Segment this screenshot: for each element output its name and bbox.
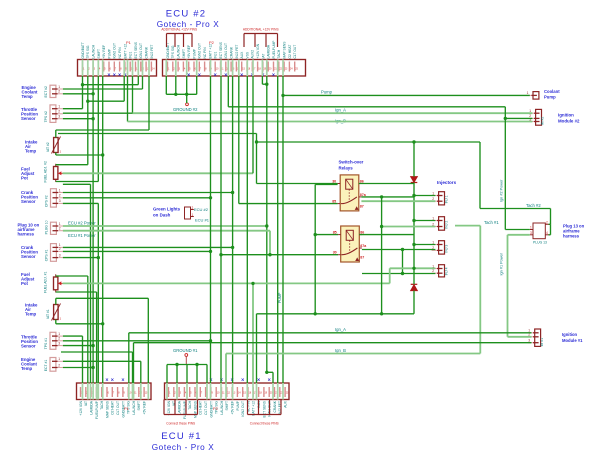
svg-text:2: 2 xyxy=(432,269,434,273)
junction inj3 pin1 xyxy=(412,243,415,246)
wire inj2 pin2 (pale) xyxy=(382,226,436,228)
svg-text:ECU #2: ECU #2 xyxy=(166,9,206,20)
connector X2 Throttle Position Sensor #2 xyxy=(44,105,63,123)
svg-text:Pump: Pump xyxy=(321,90,333,95)
svg-text:×: × xyxy=(111,377,114,383)
wire IAT#2 second lead to relay riser xyxy=(58,134,257,184)
svg-text:SHIFT: SHIFT xyxy=(225,401,229,411)
wire Ign_A bottom xyxy=(129,333,532,383)
wire Ign_A net (pale) xyxy=(133,112,533,114)
wire relay K2 87a to inj3 pin2 xyxy=(362,249,436,251)
junction ECU #2 power jog xyxy=(265,371,268,374)
wire mid vertical x=232.6 xyxy=(232,76,234,383)
junction relay K2 pin85 feed xyxy=(314,233,317,236)
connector X6 Engine Coolant Temp #1 xyxy=(44,357,63,371)
wire inj4 pin2 xyxy=(362,273,435,275)
svg-text:harness: harness xyxy=(18,232,35,237)
svg-text:×: × xyxy=(240,73,243,79)
svg-text:SHIFT: SHIFT xyxy=(182,49,186,59)
wire IAT#2 top to P1 xyxy=(56,76,149,138)
jumper bracket: connect these pins (bottom right) xyxy=(248,400,282,426)
wire relay K2 coil right to diode line xyxy=(359,234,414,236)
diode D2 xyxy=(411,283,418,293)
svg-text:CLT OUT: CLT OUT xyxy=(293,45,297,59)
wire pot#1 wiper feed corner (pale) xyxy=(389,268,391,283)
svg-text:INJ 4: INJ 4 xyxy=(445,267,449,275)
svg-text:2: 2 xyxy=(59,227,61,231)
wire IAT#1 bottom xyxy=(56,320,103,324)
svg-text:PUMP: PUMP xyxy=(278,292,282,303)
junction GROUND#1 b xyxy=(195,363,198,366)
svg-text:IGN2 OUT: IGN2 OUT xyxy=(198,43,202,59)
svg-text:ECU #1 Power: ECU #1 Power xyxy=(68,233,96,238)
svg-text:Ignition: Ignition xyxy=(562,332,578,337)
wire Ign_B bottom xyxy=(134,343,532,383)
junction P1 pin link a xyxy=(81,83,84,86)
wire tach riser horizontal xyxy=(257,142,481,209)
connector Plug 13 on airframe harness xyxy=(530,220,549,244)
junction injector common top xyxy=(412,140,415,143)
svg-text:4: 4 xyxy=(546,231,548,235)
svg-text:AUX: AUX xyxy=(240,51,244,59)
svg-text:3: 3 xyxy=(58,115,60,119)
label Green Lights on Dash xyxy=(153,207,181,218)
net label GROUND #2 xyxy=(173,103,198,112)
svg-text:Ignition: Ignition xyxy=(558,113,574,118)
junction GROUND#2 b xyxy=(185,93,188,96)
label Fuel Adjust Pot (bottom) xyxy=(21,272,35,286)
svg-text:2: 2 xyxy=(58,110,60,114)
junction inj2 pin1 xyxy=(412,219,415,222)
wire P1 stub x=98.3 xyxy=(97,76,99,182)
svg-text:GROUND #1: GROUND #1 xyxy=(173,348,198,353)
label Coolant Pump xyxy=(544,89,560,99)
wire TPS#1 pin2 xyxy=(63,340,211,342)
svg-text:Ign #2 Power: Ign #2 Power xyxy=(500,179,504,202)
wire relay K1 pin30 feed from riser xyxy=(315,184,337,186)
svg-text:PUMP: PUMP xyxy=(236,400,240,410)
svg-text:Gotech - Pro X: Gotech - Pro X xyxy=(152,443,215,452)
svg-text:LAUNCH: LAUNCH xyxy=(177,44,181,58)
svg-text:Temp: Temp xyxy=(22,94,34,99)
wire CPS#1 pin3 xyxy=(63,257,98,259)
svg-text:CRANK: CRANK xyxy=(230,46,234,58)
svg-text:CPS #2: CPS #2 xyxy=(44,195,48,207)
svg-text:CPS #1: CPS #1 xyxy=(44,250,48,262)
svg-text:IAT: IAT xyxy=(84,401,88,406)
svg-text:P1: P1 xyxy=(126,40,132,45)
relay K1 (switch-over relay 1) xyxy=(332,175,367,211)
svg-text:CRANK: CRANK xyxy=(273,400,277,412)
svg-text:TPS #2: TPS #2 xyxy=(44,111,48,122)
pale pass bars P1 top xyxy=(83,60,150,77)
junction bottom return b xyxy=(380,312,383,315)
junction x=381.6 top xyxy=(380,195,383,198)
svg-text:Relays: Relays xyxy=(339,166,354,171)
wire relay K1 pin30 feed xyxy=(257,183,338,185)
svg-text:LAUNCH: LAUNCH xyxy=(220,400,224,414)
svg-text:1: 1 xyxy=(432,240,434,244)
wire ECT#1 extra to P1 (bottom) xyxy=(61,352,133,383)
svg-text:BATT +12: BATT +12 xyxy=(208,44,212,59)
svg-text:ECT #1: ECT #1 xyxy=(44,360,48,372)
junction POT#1 wiper xyxy=(251,282,254,285)
svg-text:+12V IGN: +12V IGN xyxy=(256,43,260,58)
wire Ign #2 Power riser link xyxy=(228,76,505,107)
svg-text:PLUG 13: PLUG 13 xyxy=(533,241,547,245)
junction CPS#1 pin3 xyxy=(97,256,100,259)
svg-text:1: 1 xyxy=(58,85,60,89)
svg-text:×: × xyxy=(105,377,108,383)
connector X3 Crank Position Sensor #2 xyxy=(44,188,63,207)
svg-text:Ign #1 Power: Ign #1 Power xyxy=(500,252,504,275)
svg-text:INJ1: INJ1 xyxy=(214,52,218,59)
svg-text:ECT SENS: ECT SENS xyxy=(134,41,138,58)
svg-text:2: 2 xyxy=(59,194,61,198)
svg-text:TACH: TACH xyxy=(188,400,192,409)
wire POT#2 top corner xyxy=(56,164,88,166)
svg-text:on Dash: on Dash xyxy=(153,213,171,218)
wire relay feed vertical x=315.2 xyxy=(314,185,316,314)
junction relay feed riser bottom xyxy=(314,312,317,315)
wire ECU #1 Power xyxy=(63,231,270,255)
svg-text:Sensor: Sensor xyxy=(21,254,36,259)
svg-text:SHIFT: SHIFT xyxy=(137,401,141,411)
connector injector INJ1 xyxy=(432,191,445,205)
svg-text:+5V REF: +5V REF xyxy=(143,401,147,414)
svg-text:Temp: Temp xyxy=(21,366,33,371)
svg-text:ADDITIONAL +12V PINS: ADDITIONAL +12V PINS xyxy=(243,28,279,32)
svg-text:×: × xyxy=(214,73,217,79)
junction CPS#1 pin2 xyxy=(209,250,212,253)
svg-text:1: 1 xyxy=(432,191,434,195)
svg-text:3: 3 xyxy=(528,339,530,343)
svg-text:CRANK: CRANK xyxy=(145,46,149,58)
wire bottom return horizontal xyxy=(257,314,415,383)
svg-text:1: 1 xyxy=(58,105,60,109)
junction Pump net xyxy=(281,94,284,97)
svg-text:LAUNCH: LAUNCH xyxy=(92,44,96,58)
svg-text:87a: 87a xyxy=(360,244,367,248)
junction inj4 pin1 xyxy=(412,267,415,270)
junction Ign Module #2 pin2 xyxy=(504,117,507,120)
svg-text:Ign_A: Ign_A xyxy=(335,327,346,332)
junction ECT#1 pin2 xyxy=(91,366,94,369)
svg-text:AUX2: AUX2 xyxy=(251,50,255,59)
wire Pump net xyxy=(283,94,530,96)
thermistor Intake Air Temp #2 xyxy=(46,137,62,154)
svg-text:O2 HEAT: O2 HEAT xyxy=(288,45,292,59)
svg-text:Connect these PINS: Connect these PINS xyxy=(166,422,195,426)
svg-text:TPS SIG: TPS SIG xyxy=(86,45,90,58)
pale pass bars P2 top xyxy=(166,60,283,77)
junction relay K2 pin30 riser xyxy=(219,253,222,256)
svg-text:LAUNCH: LAUNCH xyxy=(132,400,136,414)
svg-text:×: × xyxy=(198,73,201,79)
wire CPS#1 pin2 xyxy=(63,250,211,252)
svg-text:×: × xyxy=(121,377,124,383)
svg-text:INJ2 FET: INJ2 FET xyxy=(150,45,154,59)
label Plug 10 on airframe harness xyxy=(18,223,40,237)
svg-text:×: × xyxy=(118,73,121,79)
wire mid vertical x=221 xyxy=(220,76,222,383)
svg-text:×: × xyxy=(272,73,275,79)
wire TPS#2 pin1 corner xyxy=(63,108,83,110)
wire left bus x=102.7 (sensor common 2) xyxy=(102,76,104,383)
svg-text:FUEL ADJ. #1: FUEL ADJ. #1 xyxy=(44,272,48,293)
label Fuel Adjust Pot (top) xyxy=(21,167,35,181)
svg-text:P2: P2 xyxy=(209,40,215,45)
pale pass bars P2 bottom xyxy=(167,383,283,400)
svg-text:GND/BATT: GND/BATT xyxy=(81,42,85,58)
label Switch-over Relays xyxy=(339,160,364,171)
svg-text:Temp: Temp xyxy=(25,312,37,317)
svg-text:+12V IGN: +12V IGN xyxy=(167,400,171,415)
svg-text:Module #1: Module #1 xyxy=(562,338,583,343)
svg-text:TPS #1: TPS #1 xyxy=(44,338,48,349)
wire P1 pin link b xyxy=(88,76,124,101)
label Engine Coolant Temp (top) xyxy=(22,85,39,99)
svg-text:×: × xyxy=(224,73,227,79)
wire POT#1 top corner xyxy=(56,276,88,383)
thermistor Intake Air Temp #1 xyxy=(46,304,62,321)
svg-text:IGN1 OUT: IGN1 OUT xyxy=(224,43,228,59)
svg-text:O2 HEAT: O2 HEAT xyxy=(199,401,203,415)
junction inj3 pin2 branch xyxy=(401,248,404,251)
svg-text:PUMP: PUMP xyxy=(192,48,196,58)
svg-text:×: × xyxy=(187,73,190,79)
wire P2 pin pair merge xyxy=(262,76,266,84)
junction ECU #2 power tap xyxy=(265,224,268,227)
svg-text:harness: harness xyxy=(563,234,580,239)
wire CPS#1 pin1 xyxy=(63,246,233,248)
svg-text:Injectors: Injectors xyxy=(437,180,457,185)
svg-text:Sensor: Sensor xyxy=(21,116,36,121)
wire inj1 pin2 (pale) xyxy=(361,200,435,202)
wire mid vertical x=247.3 xyxy=(246,76,248,383)
connector Ignition Module #1 xyxy=(528,329,544,347)
wire GROUND #1 merge xyxy=(167,365,207,384)
connector P2 (ECU #1) body xyxy=(165,377,290,419)
connector Green Lights on Dash xyxy=(185,206,194,219)
wire ECT#1 pin1 to P1 (bottom) xyxy=(63,361,141,383)
svg-text:VSS: VSS xyxy=(245,51,249,58)
wire POT#1 wiper vertical xyxy=(252,283,254,383)
label Plug 13 on airframe harness xyxy=(563,224,585,239)
wire POT#1 bottom corner xyxy=(56,292,97,383)
svg-text:1: 1 xyxy=(59,222,61,226)
svg-text:Tach #1: Tach #1 xyxy=(484,220,499,225)
wire ECU #2 power vertical xyxy=(267,84,273,383)
svg-text:ADDITIONAL +12V PINS: ADDITIONAL +12V PINS xyxy=(161,28,197,32)
connector P2 (ECU #2) body xyxy=(163,40,306,79)
svg-text:TACH: TACH xyxy=(100,400,104,409)
junction TPS#1 pin3 xyxy=(91,344,94,347)
wire plug13 pin3 feed / Ign #1 Power xyxy=(508,235,532,337)
label Throttle Position Sensor (bottom) xyxy=(21,335,38,349)
svg-text:Pump: Pump xyxy=(544,95,556,100)
svg-text:IAT: IAT xyxy=(261,54,265,59)
wire mid vertical x=210.5 xyxy=(210,76,212,383)
wire POT#1 wiper xyxy=(63,282,390,284)
wire injector common vertical xyxy=(413,142,415,314)
wire TPS#1 pin1 corner xyxy=(63,336,83,383)
connector injector INJ2 xyxy=(432,216,445,230)
wire P1 stub x=87.8 xyxy=(87,76,89,165)
svg-text:TPS SIG: TPS SIG xyxy=(171,45,175,58)
svg-text:LAMBDA: LAMBDA xyxy=(267,44,271,58)
svg-text:PUMP: PUMP xyxy=(107,48,111,58)
jumper bracket: additional +12V pins (left) xyxy=(161,28,197,48)
wire ECT#1 pin2 xyxy=(63,367,93,369)
label Ignition Module #1 xyxy=(562,332,583,343)
label Intake Air Temp (top) xyxy=(25,140,38,154)
relay K2 (switch-over relay 2) xyxy=(333,226,368,262)
svg-text:Sensor: Sensor xyxy=(21,344,36,349)
svg-text:IGN1 OUT: IGN1 OUT xyxy=(139,43,143,59)
svg-text:ECU #1: ECU #1 xyxy=(161,431,201,442)
svg-text:GROUND #2: GROUND #2 xyxy=(173,107,198,112)
label Crank Position Sensor (top) xyxy=(21,190,38,204)
wire inj3 pin1 stub xyxy=(414,244,435,246)
svg-text:IM #1: IM #1 xyxy=(540,338,544,347)
svg-text:Pot: Pot xyxy=(21,281,28,286)
wire plug13 pin4 stub xyxy=(549,224,551,235)
connector P1 (ECU #2) body xyxy=(78,41,157,78)
svg-text:AUX: AUX xyxy=(284,400,288,408)
wire CPS#2 pin1 xyxy=(63,192,233,194)
wire POT#2 bottom corner xyxy=(56,181,99,183)
wire vertical x=381.6 xyxy=(381,197,383,314)
junction CPS#2 pin1 xyxy=(231,191,234,194)
connector X5 Throttle Position Sensor #1 xyxy=(44,332,63,349)
svg-text:Pot: Pot xyxy=(21,176,28,181)
svg-text:INJ 1: INJ 1 xyxy=(445,195,449,203)
wire inj1 pin1 stub xyxy=(414,195,435,197)
svg-text:Temp: Temp xyxy=(25,149,37,154)
junction inj4 pin2 xyxy=(401,272,404,275)
junction IAT#1 bottom xyxy=(101,322,104,325)
svg-text:1: 1 xyxy=(527,91,529,95)
wire inj4 pin1 (pale) xyxy=(390,267,436,269)
svg-text:LAMBDA: LAMBDA xyxy=(178,400,182,414)
svg-text:BATT +12: BATT +12 xyxy=(252,401,256,416)
svg-text:MAP SENS: MAP SENS xyxy=(283,41,287,59)
label Throttle Position Sensor (top) xyxy=(21,107,38,121)
svg-text:FUEL ADJ. #2: FUEL ADJ. #2 xyxy=(44,161,48,182)
svg-text:Sensor: Sensor xyxy=(21,199,36,204)
connector injector INJ3 xyxy=(432,240,445,254)
potentiometer Fuel Adjust Pot #2 xyxy=(44,161,63,182)
svg-text:2: 2 xyxy=(546,220,548,224)
junction CPS#1 pin1 xyxy=(231,246,234,249)
svg-text:+5V REF: +5V REF xyxy=(231,401,235,414)
wire Ign_B net (pale) xyxy=(128,121,533,123)
junction GROUND#2 a xyxy=(174,93,177,96)
svg-text:NC PIN: NC PIN xyxy=(203,47,207,59)
wire IAT#1 top to P1 (bottom) xyxy=(56,298,149,383)
svg-text:87: 87 xyxy=(360,204,364,208)
svg-text:×: × xyxy=(113,73,116,79)
wire mid vertical x=283 (pump riser) xyxy=(282,76,284,383)
junction P2 pin pair xyxy=(265,83,268,86)
wire relay K2 pin30 feed xyxy=(221,254,338,256)
svg-text:1: 1 xyxy=(59,188,61,192)
connector Plug 10 on airframe harness xyxy=(44,220,63,234)
wire relay K1 pin85 feed xyxy=(239,76,338,204)
svg-text:Coolant: Coolant xyxy=(544,89,560,94)
connector P1 (ECU #1) body xyxy=(77,377,152,419)
junction ECT#2 pin2 xyxy=(91,92,94,95)
svg-text:2: 2 xyxy=(58,363,60,367)
junction GROUND#1 a xyxy=(175,363,178,366)
junction TPS#1 pin2 xyxy=(209,339,212,342)
svg-text:LAMBDA: LAMBDA xyxy=(90,400,94,414)
svg-text:87: 87 xyxy=(360,256,364,260)
svg-text:P1: P1 xyxy=(124,406,130,411)
svg-text:2: 2 xyxy=(59,247,61,251)
svg-text:2: 2 xyxy=(58,90,60,94)
wire relay K1 87a to injectors xyxy=(361,196,414,198)
wire Tach #2 xyxy=(480,209,551,225)
svg-text:INJ 2: INJ 2 xyxy=(445,221,449,229)
junction inj2 pin2 xyxy=(380,225,383,228)
svg-text:INJ 3: INJ 3 xyxy=(445,245,449,253)
junction tach riser xyxy=(255,140,258,143)
label Engine Coolant Temp (bottom) xyxy=(21,357,38,371)
diode D1 xyxy=(411,176,418,184)
wire CPS#2 pin3 corner down xyxy=(63,203,98,383)
wire vertical x=402.5 xyxy=(402,250,404,274)
wire ECT#2 pin2 xyxy=(63,93,93,95)
wire P1 stub x=82.5 xyxy=(82,76,84,109)
wire Ign_B riser xyxy=(127,76,129,122)
wire IAT#2 bottom xyxy=(56,153,103,156)
junction inj1 pin1 xyxy=(412,194,415,197)
wire ECU #2 Power xyxy=(63,225,267,227)
svg-text:P2: P2 xyxy=(213,406,219,411)
svg-text:×: × xyxy=(268,377,271,383)
svg-text:ECU #2: ECU #2 xyxy=(194,207,209,212)
wire TPS#2 pin2 to riser xyxy=(63,76,133,113)
svg-text:3: 3 xyxy=(59,199,61,203)
svg-text:Tach #2: Tach #2 xyxy=(526,203,541,208)
wire relay K2 pin85 feed xyxy=(315,234,338,236)
label Intake Air Temp (bottom) xyxy=(25,303,38,317)
pale pass bars P1 bottom xyxy=(83,383,149,400)
svg-text:×: × xyxy=(241,377,244,383)
svg-text:NC PIN: NC PIN xyxy=(118,47,122,59)
junction CPS#2 pin2 xyxy=(209,196,212,199)
wire Ign Module #2 pin2 feed / Ign #2 Power xyxy=(505,107,532,230)
svg-text:+5V REF: +5V REF xyxy=(187,45,191,58)
svg-text:FUELPUMP: FUELPUMP xyxy=(272,40,276,59)
net label GROUND #1 xyxy=(173,348,198,365)
svg-text:1: 1 xyxy=(192,213,194,217)
label Crank Position Sensor (bottom) xyxy=(21,245,38,259)
svg-text:3: 3 xyxy=(58,341,60,345)
svg-text:Green Lights: Green Lights xyxy=(153,207,181,212)
svg-text:MAP SENS: MAP SENS xyxy=(193,400,197,418)
wire CPS#2 pin2 xyxy=(63,197,211,199)
wire Tach #1 net xyxy=(226,226,480,383)
svg-text:Module #2: Module #2 xyxy=(558,119,580,124)
svg-text:IGN2 OUT: IGN2 OUT xyxy=(113,43,117,59)
junction P1 pin link b xyxy=(86,100,89,103)
svg-text:Ign_B: Ign_B xyxy=(335,348,346,353)
connector X1 Engine Coolant Temp #2 xyxy=(44,85,63,98)
svg-text:TACH: TACH xyxy=(277,49,281,58)
